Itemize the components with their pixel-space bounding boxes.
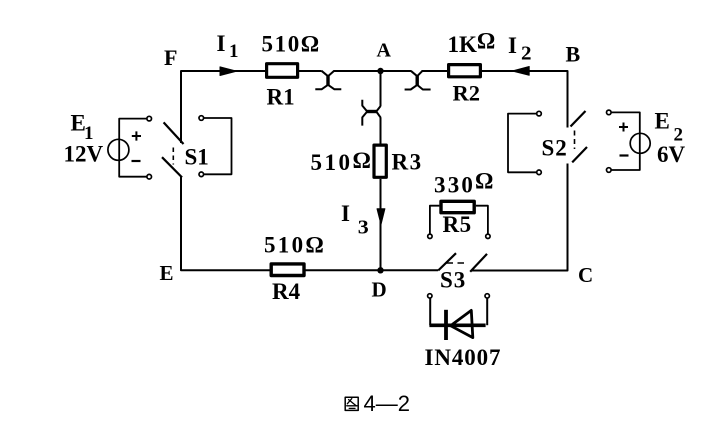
resistor R1 [267, 64, 298, 78]
node A junction dot [377, 68, 383, 74]
R5 left terminal [428, 234, 432, 238]
svg-text:1: 1 [229, 41, 239, 62]
svg-text:R2: R2 [453, 81, 481, 106]
svg-text:R5: R5 [443, 212, 472, 237]
resistor R5 [441, 201, 474, 212]
svg-text:510Ω: 510Ω [262, 31, 321, 56]
diode left terminal [428, 294, 432, 298]
resistor R4 [271, 264, 304, 276]
svg-text:12V: 12V [64, 141, 104, 166]
R5 right hook lead [476, 206, 488, 234]
svg-text:S3: S3 [440, 268, 466, 293]
switch S2 left link bracket [508, 114, 537, 173]
svg-text:Ω: Ω [475, 169, 493, 194]
battery E1 source circle [108, 139, 129, 160]
wire R1 to jack J1 [299, 70, 322, 72]
svg-text:I: I [508, 33, 517, 58]
switch S1 right terminal bottom [199, 172, 204, 177]
current arrow I1 [220, 67, 237, 76]
switch S1 gang dashed link [172, 148, 174, 165]
svg-text:D: D [372, 278, 387, 302]
diode right lead wire [486, 298, 488, 325]
switch S3 blade 1 (left) [438, 253, 456, 270]
svg-text:B: B [566, 41, 581, 66]
svg-text:E: E [655, 109, 670, 134]
switch S1 left terminal top [147, 116, 152, 121]
switch S1 left terminal bottom [147, 174, 152, 179]
switch S2 left terminal top [537, 111, 542, 116]
wire node A down to jack J3 [380, 71, 382, 106]
svg-text:Ω: Ω [353, 148, 371, 173]
resistor R2 [449, 65, 481, 77]
wire J1 to node A to jack J2 [334, 70, 412, 72]
battery E2 terminal bottom [607, 168, 612, 173]
battery E1 plus sign [132, 131, 141, 140]
switch S3 blade 2 (right) [470, 254, 487, 272]
battery E1 minus sign [132, 160, 141, 162]
svg-text:R1: R1 [267, 85, 295, 110]
switch S2 blade 2 [572, 147, 587, 162]
svg-text:4—2: 4—2 [364, 391, 410, 416]
svg-text:S1: S1 [185, 144, 209, 169]
battery E2 source circle [630, 133, 650, 153]
current arrow I3 [377, 209, 385, 225]
wire S3 to node D to R4 [304, 269, 438, 271]
svg-text:3: 3 [358, 216, 369, 238]
battery E2 terminal top [607, 110, 612, 115]
switch S2 gang dashed link [574, 131, 576, 150]
battery E2 minus sign [620, 154, 629, 156]
current arrow I2 [512, 67, 529, 76]
switch S2 blade 1 [571, 111, 586, 127]
node D junction dot [377, 267, 383, 273]
svg-text:F: F [164, 45, 177, 70]
svg-text:510Ω: 510Ω [264, 233, 326, 258]
R5 left hook lead [430, 206, 440, 234]
svg-text:A: A [377, 40, 392, 62]
wire R4 to corner E up to S1 [181, 177, 270, 270]
battery E2 leads and bracket [611, 112, 640, 170]
svg-text:I: I [341, 201, 350, 226]
svg-text:IN4007: IN4007 [425, 345, 502, 370]
svg-text:2: 2 [521, 43, 532, 65]
wire J3 to R3 [380, 118, 382, 145]
diode horizontal lead [429, 323, 485, 327]
svg-text:1KΩ: 1KΩ [448, 29, 496, 58]
battery E1 leads and bracket [119, 119, 147, 177]
switch S2 left terminal bottom [537, 170, 542, 175]
svg-text:C: C [578, 263, 593, 287]
svg-text:330: 330 [434, 173, 475, 198]
diode right terminal [485, 294, 489, 298]
svg-text:510: 510 [311, 150, 353, 175]
switch S1 blade 1 [164, 122, 184, 144]
wire J2 to R2 [422, 70, 448, 72]
svg-text:R4: R4 [272, 279, 301, 304]
R5 right terminal [486, 234, 490, 238]
resistor R3 [374, 145, 386, 177]
caption glyph tu (CJK) [345, 397, 358, 410]
jack break point J3 (vertical) [362, 100, 380, 126]
wire R2 to corner B [482, 71, 568, 128]
jack break point J2 [405, 71, 431, 90]
switch S1 right terminal top [199, 116, 204, 121]
wire S2 to corner C [471, 164, 568, 271]
wire R3 to node D [380, 179, 382, 270]
diode left lead wire [429, 298, 431, 325]
switch S1 blade 2 [162, 157, 182, 177]
diode triangle [451, 310, 473, 337]
wire F corner (left vertical top + top-left segment) [181, 71, 265, 143]
svg-text:R3: R3 [392, 150, 423, 175]
switch S1 right link bracket [204, 118, 232, 174]
svg-text:6V: 6V [657, 142, 686, 167]
jack break point J1 [315, 71, 341, 90]
switch S3 gang dashed link [447, 262, 467, 264]
svg-text:S2: S2 [542, 136, 568, 161]
svg-text:E: E [160, 261, 174, 285]
svg-text:I: I [217, 31, 226, 56]
battery E2 plus sign [619, 123, 628, 132]
diode cathode bar [444, 310, 448, 340]
